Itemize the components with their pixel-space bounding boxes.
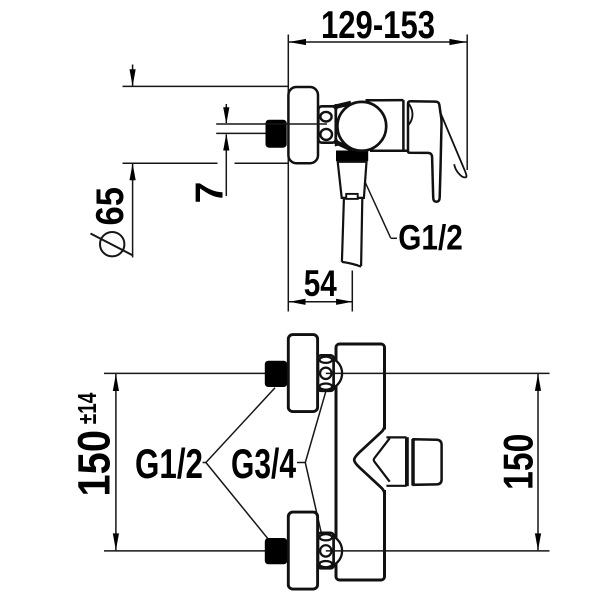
svg-text:G3/4: G3/4 [231, 440, 296, 487]
svg-text:54: 54 [304, 263, 337, 304]
svg-text:150: 150 [494, 434, 541, 490]
svg-text:±14: ±14 [72, 392, 102, 424]
svg-text:150: 150 [69, 430, 120, 497]
svg-text:G1/2: G1/2 [135, 440, 203, 487]
svg-text:65: 65 [89, 187, 132, 226]
svg-text:7: 7 [189, 182, 232, 204]
svg-text:G1/2: G1/2 [398, 218, 463, 258]
svg-text:129-153: 129-153 [321, 4, 435, 47]
